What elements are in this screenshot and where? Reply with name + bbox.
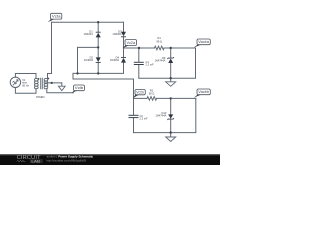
svg-text:XFMR2: XFMR2 — [36, 95, 45, 99]
svg-text:Vcta: Vcta — [52, 15, 61, 19]
svg-text:Vouta: Vouta — [198, 40, 209, 44]
svg-text:1N4004: 1N4004 — [110, 58, 120, 62]
svg-text:LAB: LAB — [31, 159, 41, 163]
svg-text:Voutb: Voutb — [198, 90, 209, 94]
svg-text:1N4744A: 1N4744A — [155, 59, 166, 63]
svg-text:1N4004: 1N4004 — [84, 58, 94, 62]
svg-text:2.2 mF: 2.2 mF — [140, 117, 148, 121]
svg-text:2.2 mF: 2.2 mF — [146, 62, 154, 66]
svg-text:Vctb: Vctb — [75, 86, 83, 90]
svg-text:1N4004: 1N4004 — [84, 32, 94, 36]
svg-text:99 Ω: 99 Ω — [156, 39, 162, 43]
svg-text:Vc2b: Vc2b — [136, 90, 144, 94]
svg-text:60 Hz: 60 Hz — [22, 84, 29, 88]
svg-text:1N4004: 1N4004 — [112, 32, 122, 36]
svg-text:http://circuitlab.com/c/88h5yg: http://circuitlab.com/c/88h5yg6b65f — [47, 159, 87, 163]
svg-text:Vc2a: Vc2a — [127, 41, 136, 45]
svg-text:1N4744A: 1N4744A — [155, 113, 166, 117]
svg-text:99 Ω: 99 Ω — [149, 92, 155, 96]
